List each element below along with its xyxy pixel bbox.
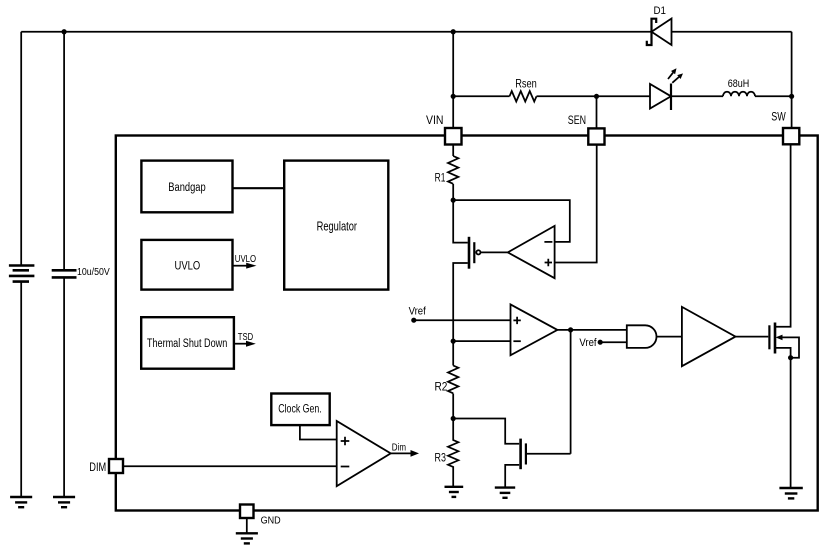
svg-text:Bandgap: Bandgap	[168, 182, 205, 194]
wire top rail right (D1 anode to SW drop)	[672, 31, 792, 33]
op-amp U2 (error amp)	[511, 304, 558, 355]
capacitor C1	[52, 270, 77, 277]
wire node B to R2	[452, 341, 454, 365]
node U2 output	[568, 327, 573, 332]
op-amp U1 (left-pointing)	[508, 226, 555, 278]
resistor Rsen	[510, 91, 537, 101]
svg-text:Rsen: Rsen	[515, 78, 537, 90]
node junction SW row2	[789, 94, 794, 99]
AND gate U5	[627, 325, 657, 348]
wire row2: SEN node to LED	[597, 95, 651, 97]
svg-text:DIM: DIM	[89, 460, 106, 474]
wire row2: inductor to SW node	[755, 95, 792, 97]
svg-text:TSD: TSD	[238, 332, 253, 343]
node junction VIN row2	[451, 94, 456, 99]
block UVLO	[141, 240, 232, 290]
pin DIM	[109, 459, 123, 473]
node junction VIN/top rail	[451, 29, 456, 34]
wire R2 to node C	[452, 394, 454, 419]
wire AND output to buffer	[657, 336, 682, 338]
svg-text:D1: D1	[654, 5, 667, 17]
pin VIN	[445, 128, 462, 145]
ground (Q3 source)	[779, 488, 802, 498]
svg-text:Clock Gen.: Clock Gen.	[278, 402, 322, 416]
wire SW rail drop from top	[791, 32, 793, 97]
wire SEN node to SEN pin	[596, 96, 598, 128]
wire node C to Q2 drain	[453, 419, 519, 444]
block Regulator	[284, 161, 388, 290]
node Vref input	[411, 318, 416, 323]
wire Vref to U2 + input	[414, 319, 511, 321]
svg-text:UVLO: UVLO	[235, 254, 256, 265]
IC boundary box	[116, 136, 818, 511]
svg-text:R1: R1	[435, 173, 446, 185]
node Q3 source/body junction	[788, 355, 793, 360]
svg-text:Vref: Vref	[409, 305, 427, 317]
wire capacitor top stub	[63, 32, 65, 270]
svg-text:SW: SW	[771, 110, 786, 124]
wire Bandgap to Regulator	[233, 187, 285, 189]
transistor Q1 (PMOS)	[469, 237, 481, 269]
ground (GND pin)	[236, 533, 258, 543]
svg-text:R3: R3	[435, 453, 446, 465]
wire VIN rail drop from top	[452, 32, 454, 97]
ground (R3)	[445, 487, 464, 497]
svg-text:10u/50V: 10u/50V	[77, 267, 110, 278]
wire battery top stub	[20, 32, 22, 266]
wire SW node to SW pin	[791, 96, 793, 128]
comparator U3 (dimming)	[337, 421, 391, 486]
wire Q1 source to rail	[453, 263, 468, 341]
node A (R1 bottom / feedback)	[451, 198, 456, 203]
wire U2 output to AND gate	[557, 329, 626, 331]
wire VIN pin to R1	[452, 145, 454, 157]
svg-text:UVLO: UVLO	[175, 259, 201, 273]
ground (battery)	[10, 497, 32, 507]
wire battery bottom stub	[20, 282, 22, 497]
svg-text:SEN: SEN	[568, 113, 586, 127]
wire Vref node to AND gate	[600, 341, 627, 343]
wire capacitor bottom stub	[63, 277, 65, 497]
svg-text:VIN: VIN	[426, 113, 444, 127]
wire node A down to Q1 drain	[453, 200, 468, 243]
pin SEN	[588, 128, 604, 144]
svg-text:Dim: Dim	[392, 442, 406, 454]
svg-text:Regulator: Regulator	[317, 219, 357, 233]
ground (Q2 source)	[495, 488, 515, 498]
wire GND pin stub	[246, 518, 248, 533]
wire TSD output arrow	[234, 341, 256, 347]
wire feedback node A to U1 inverting input	[453, 200, 570, 242]
wire row2: VIN node to Rsen	[453, 95, 509, 97]
resistor R2	[448, 366, 458, 394]
resistor R1	[448, 156, 458, 184]
wire UVLO output arrow	[233, 263, 257, 269]
wire R1 to node A	[452, 184, 454, 200]
inductor L1 68uH	[723, 92, 755, 97]
transistor Q3 (output NMOS)	[769, 144, 799, 488]
block Bandgap	[141, 161, 232, 213]
ground (capacitor)	[53, 497, 75, 507]
wire node B to U2 - input	[453, 340, 510, 342]
node C (R2/R3 divider)	[451, 416, 456, 421]
svg-text:Thermal Shut Down: Thermal Shut Down	[147, 338, 227, 350]
node junction cap/top rail	[62, 29, 67, 34]
wire top rail left (battery to D1 cathode)	[21, 31, 651, 33]
svg-text:R2: R2	[435, 382, 448, 394]
node Vref AND input	[598, 340, 603, 345]
wire DIM pin to U3 - input	[123, 465, 337, 467]
wire row2: LED to inductor	[671, 95, 723, 97]
wire buffer output to Q3 gate	[736, 336, 769, 338]
wire U1 + input to SEN pin	[555, 145, 597, 263]
wire Clock Gen to U3 + input	[300, 425, 337, 439]
node B (U2 - input / R2 top)	[451, 339, 456, 344]
block Clock Gen.	[271, 394, 329, 426]
buffer U6	[682, 307, 736, 366]
transistor Q2 (dimming NMOS)	[505, 439, 570, 487]
LED D2	[650, 68, 683, 110]
battery V1	[9, 266, 35, 282]
wire row2: Rsen to SEN node	[537, 95, 597, 97]
wire U1 output to Q1 gate bubble	[481, 251, 508, 253]
resistor R3	[448, 419, 458, 487]
wire VIN node to VIN pin	[452, 96, 454, 128]
pin SW	[783, 128, 799, 144]
svg-text:68uH: 68uH	[728, 78, 750, 90]
block Thermal Shut Down	[141, 317, 234, 369]
svg-text:GND: GND	[261, 515, 281, 527]
diode D1 (Schottky)	[647, 19, 672, 46]
node junction SEN row2	[594, 94, 599, 99]
svg-text:Vref: Vref	[579, 337, 597, 349]
wire U2 output down to Q2 gate	[570, 330, 572, 454]
wire Dim output arrow	[391, 450, 419, 457]
pin GND	[240, 505, 254, 519]
